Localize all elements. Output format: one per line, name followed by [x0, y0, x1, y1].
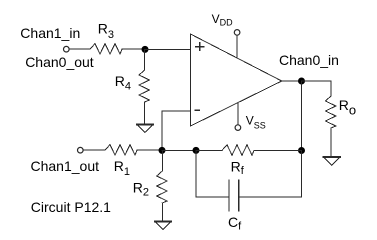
wire op-amp bottom to VSS — [237, 103, 239, 124]
wire node D to node E — [162, 149, 196, 151]
capacitor Cf — [229, 180, 239, 211]
op-amp U1 — [191, 34, 282, 126]
wire node E down to Cf — [196, 150, 229, 197]
wire node D down to R2 — [161, 150, 163, 171]
svg-text:R1: R1 — [114, 158, 130, 178]
svg-text:VDD: VDD — [212, 12, 234, 28]
terminal Chan1_in — [64, 46, 70, 52]
op-amp + input symbol — [196, 43, 204, 51]
wire node A to op-amp + input — [145, 48, 191, 50]
wire node B to Ro — [302, 81, 332, 96]
wire node B down to node C — [300, 81, 302, 151]
node B junction (output) — [298, 78, 305, 85]
svg-text:R4: R4 — [115, 73, 131, 92]
node E junction — [193, 147, 200, 154]
svg-text:Circuit P12.1: Circuit P12.1 — [31, 199, 111, 215]
wire op-amp - input to corner — [162, 111, 190, 150]
wire op-amp output to node B — [282, 80, 302, 82]
wire R1 to node D — [137, 149, 162, 151]
svg-text:Chan1_out: Chan1_out — [31, 158, 100, 174]
wire terminal to R1 — [84, 149, 105, 151]
resistor Ro — [325, 96, 335, 128]
svg-text:R2: R2 — [133, 180, 149, 199]
svg-text:R3: R3 — [98, 21, 114, 42]
node A junction — [142, 46, 149, 53]
resistor R2 — [157, 171, 167, 203]
wire node A down to R4 — [144, 49, 146, 70]
wire R4 to ground — [144, 102, 146, 125]
op-amp - input symbol — [195, 109, 199, 111]
VSS terminal circle — [235, 125, 241, 131]
ground (below R2) — [155, 222, 171, 230]
ground (below R4) — [137, 125, 153, 133]
svg-text:Chan0_in: Chan0_in — [279, 52, 339, 68]
wire terminal to R3 — [70, 48, 90, 50]
node D junction — [159, 147, 166, 154]
wire node E to Rf — [196, 149, 222, 151]
wire R3 to node A — [122, 48, 145, 50]
svg-text:Rf: Rf — [231, 159, 245, 178]
wire R2 to ground — [161, 203, 163, 222]
terminal Chan1_out — [78, 147, 84, 153]
wire Rf to node C — [254, 149, 302, 151]
VDD terminal circle — [234, 30, 240, 36]
ground (below Ro) — [324, 157, 340, 165]
wire VDD to op-amp top — [236, 36, 238, 59]
wire Cf to node C branch — [239, 151, 301, 198]
svg-text:Chan1_in: Chan1_in — [20, 25, 80, 41]
resistor R4 — [139, 70, 149, 102]
resistor R1 — [105, 145, 137, 155]
node C junction — [298, 147, 305, 154]
svg-text:VSS: VSS — [246, 114, 266, 131]
svg-text:Ro: Ro — [339, 97, 356, 118]
wire Ro to ground — [330, 128, 332, 157]
svg-text:Cf: Cf — [228, 214, 242, 233]
resistor R3 — [90, 44, 122, 54]
svg-text:Chan0_out: Chan0_out — [25, 54, 94, 70]
resistor Rf — [222, 145, 254, 155]
